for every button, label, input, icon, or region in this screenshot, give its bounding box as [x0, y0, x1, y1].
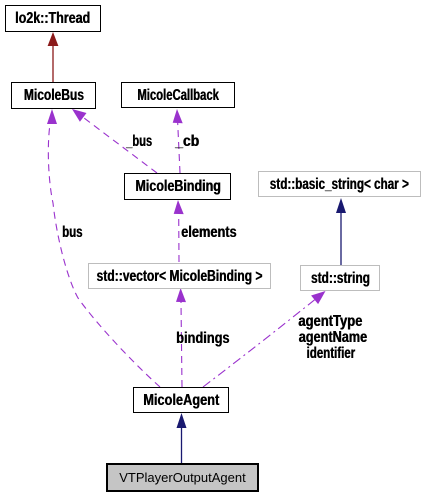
class box MicoleBus [11, 82, 96, 109]
class box VTPlayerOutputAgent (current) [106, 463, 259, 492]
class box MicoleBinding [124, 173, 231, 200]
usage edge _cb: MicoleBinding -> MicoleCallback [173, 109, 183, 173]
class box lo2k::Thread [5, 5, 101, 32]
public inheritance arrow VTPlayerOutputAgent -> MicoleAgent [177, 413, 187, 463]
class box MicoleAgent [133, 387, 229, 413]
usage edge elements: std::vector< MicoleBinding > -> MicoleBinding [174, 200, 184, 262]
edge label bus [62, 225, 82, 240]
edge label elements [181, 225, 237, 240]
usage edge _bus: MicoleBinding -> MicoleBus [72, 109, 157, 173]
class box std::vector< MicoleBinding > [88, 263, 271, 289]
class box MicoleCallback [121, 82, 235, 108]
usage edge bus: MicoleAgent -> MicoleBus [47, 109, 160, 387]
class box std::basic_string< char > [258, 171, 421, 197]
usage edge agentType/agentName/identifier: MicoleAgent -> std::string [203, 291, 326, 387]
edge label agentType / agentName / identifier [291, 314, 371, 362]
edge label _bus [126, 134, 152, 149]
usage edge bindings: MicoleAgent -> std::vector< MicoleBinding > [176, 288, 186, 387]
public inheritance arrow std::string -> std::basic_string< char > [336, 198, 346, 265]
edge label _cb [175, 134, 199, 149]
class box std::string [300, 265, 380, 291]
private inheritance arrow MicoleBus -> lo2k::Thread [48, 32, 59, 82]
edge label bindings [176, 331, 229, 346]
